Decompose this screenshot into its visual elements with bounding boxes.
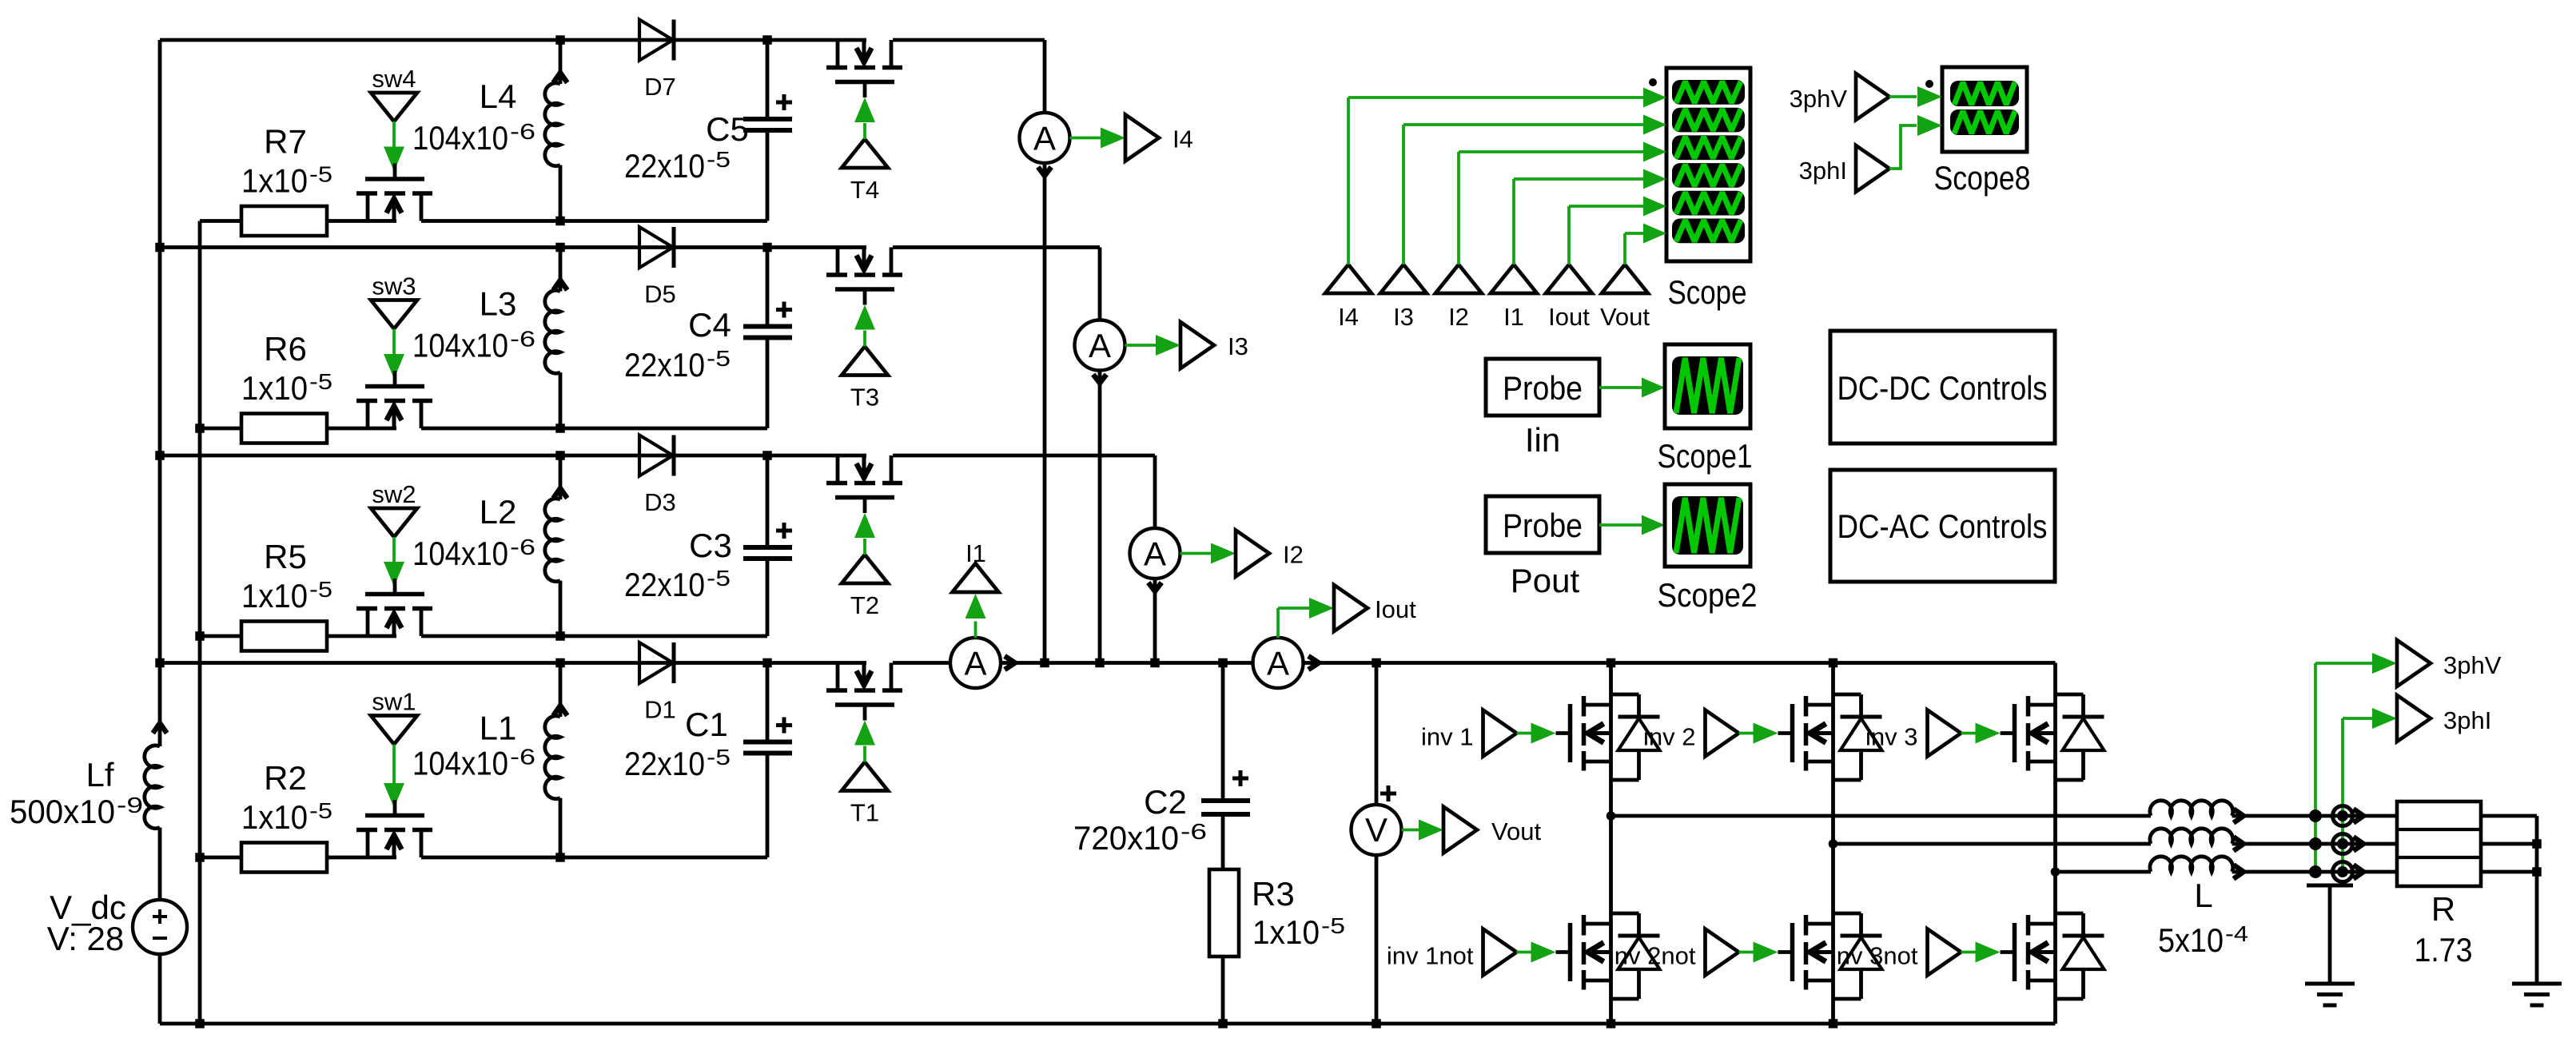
- svg-text:1.73: 1.73: [2415, 931, 2473, 968]
- inductor L3: [559, 248, 563, 292]
- diode D1: [639, 642, 673, 683]
- svg-text:inv 1: inv 1: [1421, 723, 1473, 751]
- signal wire inv 2: [1739, 732, 1754, 735]
- transistor sw4 MOSFET: [366, 196, 370, 221]
- svg-text:sw4: sw4: [372, 65, 416, 93]
- input port T3: [842, 347, 888, 376]
- svg-text:V: 28: V: 28: [47, 920, 125, 957]
- input port inv 1not: [1483, 929, 1517, 976]
- junction R out b: [2532, 839, 2542, 849]
- svg-text:I1: I1: [966, 539, 986, 567]
- junction leg1 bottom: [1607, 1019, 1616, 1028]
- wire: phase output 3: [2056, 870, 2152, 874]
- signal wire 3phI: [1889, 125, 1917, 169]
- svg-text:D5: D5: [644, 280, 676, 308]
- junction voltmeter rail: [1372, 1019, 1381, 1028]
- transistor T1 MOSFET: [836, 663, 840, 689]
- wire: ammeter 4 down to DC bus: [1043, 163, 1047, 663]
- svg-text:C5: C5: [706, 110, 749, 148]
- junction bus x1445: [1150, 658, 1160, 668]
- junction leg1 midpoint: [1607, 811, 1616, 821]
- wire: inverter leg 3 trunk: [2053, 663, 2057, 1024]
- input port inv 2not: [1706, 929, 1739, 976]
- svg-text:-5: -5: [309, 162, 332, 187]
- svg-text:-5: -5: [707, 566, 731, 591]
- junction chain row 2: [195, 631, 205, 641]
- input port T2: [842, 555, 888, 583]
- voltage source V_dc: [133, 900, 187, 954]
- transistor inv 2not MOSFET: [1804, 915, 1809, 936]
- signal wire I3 to scope: [1402, 125, 1405, 264]
- input port inv 3: [1928, 710, 1961, 757]
- signal wire inv 1: [1517, 732, 1531, 735]
- wire: inverter leg 2 trunk: [1831, 663, 1835, 1024]
- signal wire I1 to scope: [1512, 179, 1515, 264]
- signal wire probe2: [1599, 523, 1642, 527]
- svg-text:T3: T3: [850, 384, 879, 412]
- svg-text:inv 2not: inv 2not: [1609, 942, 1696, 970]
- svg-text:I3: I3: [1393, 303, 1414, 331]
- svg-text:inv 3: inv 3: [1865, 723, 1917, 751]
- svg-text:22x10: 22x10: [624, 346, 705, 384]
- svg-text:104x10: 104x10: [412, 119, 508, 157]
- voltmeter V: [1375, 663, 1379, 805]
- junction L1 bottom: [555, 853, 565, 862]
- svg-text:sw2: sw2: [372, 480, 416, 508]
- input port T1: [842, 762, 888, 791]
- diode D7: [639, 20, 673, 61]
- transistor T2 MOSFET: [836, 455, 840, 481]
- wire: V_dc to bottom rail: [158, 954, 162, 1024]
- wire: phase 4 top bus: [160, 38, 866, 42]
- resistor R6: [241, 414, 327, 443]
- svg-text:I2: I2: [1283, 541, 1304, 569]
- svg-text:5x10: 5x10: [2158, 921, 2224, 959]
- svg-text:R3: R3: [1252, 875, 1295, 913]
- svg-text:Probe: Probe: [1503, 507, 1583, 544]
- svg-text:-4: -4: [2225, 921, 2248, 946]
- input port sw3: [371, 300, 417, 329]
- svg-text:3phI: 3phI: [1799, 157, 1847, 185]
- wire: R to ground vertical: [2481, 814, 2537, 818]
- svg-text:1x10: 1x10: [241, 798, 308, 836]
- wire: phase 2 output to ammeter: [1153, 455, 1157, 528]
- wire: bus to inverter: [1304, 661, 2056, 665]
- svg-text:T2: T2: [850, 591, 879, 619]
- signal wire inv 2not: [1739, 951, 1754, 954]
- svg-text:3phI: 3phI: [2443, 706, 2491, 734]
- svg-text:V: V: [1365, 811, 1388, 849]
- svg-text:1x10: 1x10: [1252, 913, 1320, 951]
- wire: phase 3 output to ammeter: [1098, 248, 1102, 320]
- svg-text:R5: R5: [264, 538, 307, 575]
- input port 3phV (scope8): [1856, 74, 1889, 120]
- svg-text:Iout: Iout: [1548, 303, 1590, 331]
- capacitor C2: [1221, 663, 1225, 800]
- junction L3 top: [555, 243, 565, 253]
- wire: phase 4 bottom link: [200, 219, 241, 223]
- junction chain row 3: [195, 424, 205, 433]
- resistor R7: [241, 206, 327, 236]
- inductor Lf: [153, 723, 167, 734]
- input port 3phI (scope8): [1856, 145, 1889, 192]
- junction bus x1376: [1095, 658, 1105, 668]
- signal wire Vout to scope: [1623, 233, 1626, 264]
- signal wire T2 to gate: [863, 539, 866, 555]
- wire 3phV to port: [2315, 662, 2377, 665]
- signal wire inv 3: [1961, 732, 1976, 735]
- input port Iout (scope): [1546, 264, 1592, 293]
- transistor inv 3 MOSFET: [2026, 696, 2031, 717]
- scope Scope8: [1942, 67, 2027, 152]
- junction leg1 top: [1607, 658, 1616, 668]
- svg-text:1x10: 1x10: [241, 577, 308, 614]
- svg-text:-9: -9: [117, 793, 143, 817]
- svg-text:Scope1: Scope1: [1658, 437, 1753, 475]
- svg-text:3phV: 3phV: [1790, 85, 1848, 113]
- svg-text:Scope8: Scope8: [1934, 159, 2031, 197]
- output port I4: [1070, 137, 1112, 140]
- wire: phase 1 top bus: [160, 661, 866, 665]
- svg-text:R: R: [2431, 890, 2455, 928]
- input port Vout (scope): [1602, 264, 1648, 293]
- svg-text:A: A: [1033, 120, 1056, 157]
- svg-text:C3: C3: [689, 527, 732, 564]
- signal wire inv 3not: [1961, 951, 1976, 954]
- input port I1 (scope): [1491, 264, 1537, 293]
- svg-text:104x10: 104x10: [412, 535, 508, 572]
- wire: bus between ammeters: [1001, 661, 1253, 665]
- svg-text:inv 3not: inv 3not: [1831, 942, 1918, 970]
- wire: ammeter 2 down to DC bus: [1153, 579, 1157, 663]
- node 3phV taps: [2314, 663, 2317, 872]
- ammeter Iout: [1253, 638, 1304, 688]
- inductor L2: [559, 455, 563, 499]
- probe Iin: [1486, 359, 1599, 416]
- svg-text:L1: L1: [480, 710, 517, 747]
- svg-text:-5: -5: [707, 745, 731, 770]
- svg-text:L3: L3: [480, 285, 517, 323]
- signal wire inv 1not: [1517, 951, 1531, 954]
- wire: gate-return chain vertical: [198, 221, 202, 1024]
- svg-text:D1: D1: [644, 696, 676, 724]
- transistor sw2 MOSFET: [366, 610, 370, 636]
- capacitor C5: [766, 40, 770, 117]
- svg-text:Scope2: Scope2: [1658, 576, 1758, 614]
- star point bar and ground: [2307, 884, 2353, 888]
- svg-text:L: L: [2194, 877, 2212, 914]
- svg-text:-5: -5: [309, 577, 332, 602]
- transistor T4 MOSFET: [836, 40, 840, 66]
- input port sw4: [371, 93, 417, 121]
- scope Scope1: [1665, 344, 1750, 428]
- svg-text:D7: D7: [644, 73, 676, 101]
- input port inv 3not: [1928, 929, 1961, 976]
- junction R out c: [2532, 867, 2542, 877]
- ground (measurement): [2305, 982, 2355, 986]
- svg-text:I4: I4: [1173, 125, 1193, 153]
- junction C5 top: [762, 35, 772, 45]
- svg-text:T1: T1: [850, 799, 879, 827]
- output port Vout: [1402, 829, 1419, 832]
- signal wire sw2 to gate: [392, 537, 396, 562]
- svg-text:Probe: Probe: [1503, 369, 1583, 407]
- svg-text:-6: -6: [510, 327, 536, 352]
- ground (load): [2512, 982, 2562, 986]
- svg-text:R6: R6: [264, 330, 307, 368]
- svg-text:DC-AC Controls: DC-AC Controls: [1837, 507, 2048, 545]
- junction chain row 1: [195, 853, 205, 862]
- wire: inverter leg 1 trunk: [1609, 663, 1613, 1024]
- svg-text:1x10: 1x10: [241, 369, 308, 407]
- svg-text:-6: -6: [510, 745, 536, 770]
- svg-text:I4: I4: [1338, 303, 1359, 331]
- resistor R5: [241, 622, 327, 651]
- svg-text:-5: -5: [707, 147, 731, 172]
- wire: left input rail: [158, 40, 162, 746]
- svg-text:R7: R7: [264, 123, 307, 161]
- wire: bottom return rail: [160, 1022, 2056, 1026]
- transistor inv 2 MOSFET: [1804, 696, 1809, 717]
- svg-text:I3: I3: [1228, 332, 1248, 360]
- svg-text:sw3: sw3: [372, 272, 416, 300]
- junction L2 top: [555, 451, 565, 460]
- capacitor C4: [766, 248, 770, 324]
- wire: ammeter 3 down to DC bus: [1098, 371, 1102, 663]
- svg-text:-6: -6: [1181, 819, 1207, 844]
- transistor sw3 MOSFET: [366, 403, 370, 428]
- transistor inv 1 MOSFET: [1582, 696, 1587, 717]
- input port T4: [842, 139, 888, 168]
- wire: phase 3 top bus: [160, 245, 866, 249]
- inductor L1: [559, 663, 563, 718]
- junction L3 bottom: [555, 424, 565, 433]
- probe Pout: [1486, 496, 1599, 553]
- wire: phase output 1: [1611, 814, 2152, 818]
- svg-text:A: A: [1267, 645, 1289, 682]
- signal wire sw1 to gate: [392, 745, 396, 784]
- scope Scope: [1666, 68, 1750, 261]
- output port I2: [1181, 552, 1222, 555]
- svg-text:I2: I2: [1448, 303, 1469, 331]
- transistor inv 1not MOSFET: [1582, 915, 1587, 936]
- svg-text:R2: R2: [264, 759, 307, 797]
- junction leg2 top: [1829, 658, 1838, 668]
- wire: phase 3 bottom link: [200, 427, 241, 431]
- svg-text:A: A: [1089, 327, 1111, 364]
- junction voltmeter bus: [1372, 658, 1381, 668]
- wire: phase 1 bottom link: [200, 856, 241, 860]
- output port Iout: [1276, 608, 1280, 638]
- junction L2 bottom: [555, 631, 565, 641]
- ammeter A4: [1020, 113, 1070, 163]
- svg-text:C2: C2: [1144, 783, 1187, 821]
- transistor inv 3not MOSFET: [2026, 915, 2031, 936]
- junction L4 top: [555, 35, 565, 45]
- input port I2 (scope): [1435, 264, 1482, 293]
- input port I4 (scope): [1325, 264, 1372, 293]
- svg-text:-6: -6: [510, 119, 536, 144]
- svg-text:T4: T4: [850, 176, 879, 204]
- transistor T3 MOSFET: [836, 248, 840, 273]
- signal wire 3phV: [1889, 95, 1917, 98]
- svg-text:104x10: 104x10: [412, 327, 508, 364]
- svg-text:A: A: [964, 645, 986, 682]
- ammeter A3: [1075, 320, 1125, 371]
- resistor R2: [241, 843, 327, 873]
- svg-text:104x10: 104x10: [412, 745, 508, 782]
- ammeter A1 (I1): [950, 638, 1001, 688]
- wire: phase 2 top bus: [160, 454, 866, 458]
- junction L1 top: [555, 658, 565, 668]
- signal wire sw4 to gate: [392, 121, 396, 147]
- junction leg2 bottom: [1829, 1019, 1838, 1028]
- svg-text:-5: -5: [707, 346, 731, 371]
- svg-text:inv 2: inv 2: [1643, 723, 1695, 751]
- junction rail row 3: [155, 243, 165, 253]
- capacitor C1: [766, 663, 770, 740]
- svg-text:500x10: 500x10: [10, 793, 115, 830]
- svg-text:C4: C4: [688, 306, 731, 344]
- svg-text:D3: D3: [644, 488, 676, 516]
- inductor L (three-phase): [2150, 801, 2233, 816]
- junction L4 bottom: [555, 217, 565, 226]
- diode D3: [639, 436, 673, 476]
- signal wire T3 to gate: [863, 331, 866, 347]
- junction chain-rail: [195, 1019, 205, 1028]
- svg-text:Vout: Vout: [1600, 303, 1650, 331]
- input port sw1: [371, 716, 417, 745]
- signal wire Iout to scope: [1567, 206, 1571, 264]
- wire: phase output 2: [1833, 842, 2152, 846]
- ammeter A2: [1130, 528, 1181, 579]
- wire: phase 4 output to ammeter: [1043, 40, 1047, 113]
- svg-text:-5: -5: [1321, 913, 1345, 938]
- svg-text:L4: L4: [480, 78, 517, 115]
- svg-text:DC-DC Controls: DC-DC Controls: [1837, 369, 2048, 407]
- svg-text:1x10: 1x10: [241, 162, 308, 200]
- svg-text:Lf: Lf: [86, 756, 113, 793]
- capacitor C3: [766, 455, 770, 545]
- transistor sw1 MOSFET: [366, 832, 370, 857]
- svg-text:L2: L2: [480, 493, 517, 531]
- resistor R (three-phase): [2397, 801, 2481, 886]
- svg-text:sw1: sw1: [372, 688, 416, 716]
- output port I3: [1125, 344, 1167, 347]
- svg-text:-5: -5: [309, 369, 332, 394]
- junction leg3 midpoint: [2051, 867, 2060, 877]
- wire 3phI to port: [2343, 717, 2381, 720]
- junction leg2 midpoint: [1829, 839, 1838, 849]
- svg-text:22x10: 22x10: [624, 147, 705, 185]
- svg-text:I1: I1: [1503, 303, 1524, 331]
- svg-text:22x10: 22x10: [624, 566, 705, 603]
- signal wire I4 to scope: [1347, 97, 1350, 264]
- svg-text:Iout: Iout: [1375, 595, 1416, 623]
- svg-text:-5: -5: [309, 798, 332, 823]
- wire: phase 2 bottom link: [200, 634, 241, 638]
- scope Scope2: [1665, 484, 1750, 567]
- svg-text:Iin: Iin: [1525, 421, 1560, 459]
- body diode inv 1: [1611, 693, 1639, 697]
- subsystem DC-AC Controls: [1830, 470, 2055, 582]
- junction bus x1307: [1040, 658, 1049, 668]
- output port I1: [974, 622, 977, 638]
- input port I3 (scope): [1380, 264, 1427, 293]
- current sensor rings 3phI: [2341, 718, 2344, 872]
- body diode inv 3not: [2056, 912, 2084, 916]
- body diode inv 2not: [1833, 912, 1861, 916]
- inductor L4: [559, 40, 563, 84]
- signal wire T4 to gate: [863, 123, 866, 139]
- output port 3phI (right): [2397, 695, 2431, 742]
- svg-text:Scope: Scope: [1668, 273, 1747, 311]
- junction C1 top: [762, 658, 772, 668]
- signal wire probe1: [1599, 386, 1642, 389]
- svg-text:22x10: 22x10: [624, 745, 705, 782]
- svg-text:Pout: Pout: [1511, 562, 1580, 599]
- subsystem DC-DC Controls: [1830, 331, 2055, 443]
- input port sw2: [371, 508, 417, 537]
- body diode inv 1not: [1611, 912, 1639, 916]
- junction C3 top: [762, 451, 772, 460]
- junction rail row 2: [155, 451, 165, 460]
- resistor R3: [1209, 869, 1239, 957]
- svg-text:C1: C1: [685, 706, 728, 743]
- input port inv 1: [1483, 710, 1517, 757]
- junction C4 top: [762, 243, 772, 253]
- svg-text:inv 1not: inv 1not: [1387, 942, 1474, 970]
- signal wire T1 to gate: [863, 746, 866, 762]
- svg-text:A: A: [1144, 535, 1166, 573]
- junction C2 rail: [1218, 1019, 1228, 1028]
- svg-text:720x10: 720x10: [1073, 819, 1179, 857]
- svg-text:Vout: Vout: [1491, 817, 1541, 845]
- body diode inv 3: [2056, 693, 2084, 697]
- junction rail row 1: [155, 658, 165, 668]
- output port 3phV (right): [2397, 640, 2431, 686]
- diode D5: [639, 227, 673, 268]
- body diode inv 2: [1833, 693, 1861, 697]
- svg-text:3phV: 3phV: [2443, 651, 2502, 679]
- input port inv 2: [1706, 710, 1739, 757]
- signal wire sw3 to gate: [392, 329, 396, 355]
- signal wire I2 to scope: [1457, 152, 1460, 264]
- junction C2 bus: [1218, 658, 1228, 668]
- svg-text:-6: -6: [510, 535, 536, 559]
